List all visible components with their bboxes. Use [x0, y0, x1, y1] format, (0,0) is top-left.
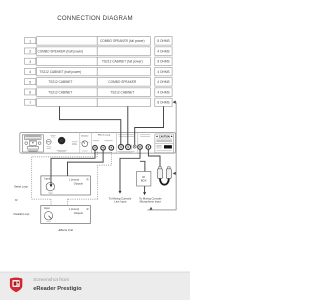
svg-text:eReader Prestigio: eReader Prestigio	[33, 286, 82, 292]
svg-text:Input: Input	[44, 176, 50, 180]
serial loop input knob	[46, 182, 54, 190]
speaker output jack A	[119, 145, 124, 150]
svg-text:6: 6	[29, 91, 31, 95]
wire DI box to mic input	[144, 186, 146, 192]
divider	[90, 133, 92, 154]
svg-text:TS212 CABINET (half power): TS212 CABINET (half power)	[39, 70, 81, 74]
prestigio logo	[10, 278, 22, 293]
amplifier rear panel	[20, 133, 176, 154]
wire W3: ohms column to small connector	[135, 106, 164, 145]
svg-text:Effects Loop: Effects Loop	[98, 134, 111, 137]
svg-text:2: 2	[29, 50, 31, 54]
speaker output jack B	[126, 145, 131, 150]
svg-text:TS212 CABINET (full power): TS212 CABINET (full power)	[102, 60, 143, 64]
divider	[79, 133, 81, 154]
svg-text:8 OHMS: 8 OHMS	[157, 39, 169, 43]
caution label	[155, 134, 174, 153]
parallel loop effects box	[41, 206, 91, 224]
svg-text:TS212 CABINET: TS212 CABINET	[48, 90, 72, 94]
svg-text:Screenshot from: Screenshot from	[33, 277, 69, 283]
power inlet module	[22, 135, 43, 152]
arrow to mic input label	[150, 207, 153, 210]
wire mic jack to XLR connector	[148, 149, 160, 169]
svg-text:COMBO SPEAKER: COMBO SPEAKER	[108, 80, 137, 84]
annotation line W4	[147, 102, 176, 210]
small speaker connector	[133, 145, 136, 148]
svg-text:7: 7	[29, 101, 31, 105]
svg-text:4 OHMS: 4 OHMS	[157, 90, 169, 94]
wire return jack to serial loop output	[68, 150, 104, 176]
svg-text:COMBO SPEAKER (half power): COMBO SPEAKER (half power)	[37, 49, 83, 53]
svg-text:8 OHMS: 8 OHMS	[157, 60, 169, 64]
wire W1: left column to speaker jack A	[60, 106, 121, 145]
svg-text:Parallel Loop: Parallel Loop	[14, 212, 30, 216]
svg-text:COMBO SPEAKER (full power): COMBO SPEAKER (full power)	[100, 39, 145, 43]
page background	[0, 0, 190, 300]
svg-text:Or: Or	[15, 198, 18, 202]
wire W2: right column to speaker jack B	[127, 106, 129, 145]
divider	[116, 133, 118, 154]
svg-text:Input: Input	[44, 206, 50, 210]
svg-text:L (mono): L (mono)	[69, 177, 79, 181]
breaker button	[58, 137, 65, 144]
wire line out to mixing console	[120, 149, 140, 191]
dashed alternative wires	[32, 150, 112, 206]
svg-text:CONNECTION DIAGRAM: CONNECTION DIAGRAM	[57, 15, 133, 22]
svg-text:DI: DI	[142, 175, 145, 179]
svg-text:BOX: BOX	[141, 179, 147, 183]
line out section	[140, 135, 151, 137]
mic out jack	[146, 145, 151, 150]
arrow at XLR cable	[173, 172, 176, 175]
branch to DI box	[140, 161, 145, 171]
svg-text:4 OHMS: 4 OHMS	[157, 80, 169, 84]
connection table	[25, 37, 173, 107]
svg-text:Line Input: Line Input	[114, 199, 126, 203]
line out jack	[138, 145, 143, 150]
svg-text:Effects Unit: Effects Unit	[59, 228, 74, 232]
serial loop effects box	[41, 176, 91, 195]
svg-text:Volume: Volume	[81, 136, 89, 138]
svg-text:L (mono): L (mono)	[69, 207, 79, 211]
arrow at row 7 ohms	[173, 101, 176, 104]
svg-text:Outputs: Outputs	[74, 211, 84, 215]
speaker output section	[118, 135, 135, 137]
wire send jack to serial loop input	[51, 150, 95, 176]
svg-text:Microphone Input: Microphone Input	[140, 200, 161, 204]
svg-text:4 OHMS: 4 OHMS	[157, 70, 169, 74]
DI box	[137, 172, 151, 187]
effects loop jacks: send / return / parallel	[93, 146, 114, 151]
footer bar	[0, 272, 190, 300]
svg-text:CAUTION: CAUTION	[159, 135, 170, 138]
svg-text:1: 1	[29, 39, 31, 43]
svg-text:4 OHMS: 4 OHMS	[157, 49, 169, 53]
svg-text:5: 5	[29, 80, 31, 84]
svg-text:Outputs: Outputs	[74, 182, 84, 186]
svg-text:R: R	[87, 207, 89, 211]
svg-text:Serial Loop: Serial Loop	[14, 184, 28, 188]
svg-text:8 OHMS: 8 OHMS	[157, 101, 169, 105]
svg-text:TS212 CABINET: TS212 CABINET	[110, 90, 134, 94]
XLR cable drawing	[158, 167, 172, 185]
parallel loop input knob	[44, 212, 52, 220]
fuse holder	[46, 139, 51, 144]
svg-text:TS212 CABINET: TS212 CABINET	[48, 80, 72, 84]
divider	[137, 133, 139, 154]
svg-text:R: R	[87, 177, 89, 181]
svg-text:4: 4	[29, 70, 31, 74]
svg-text:3: 3	[29, 60, 31, 64]
